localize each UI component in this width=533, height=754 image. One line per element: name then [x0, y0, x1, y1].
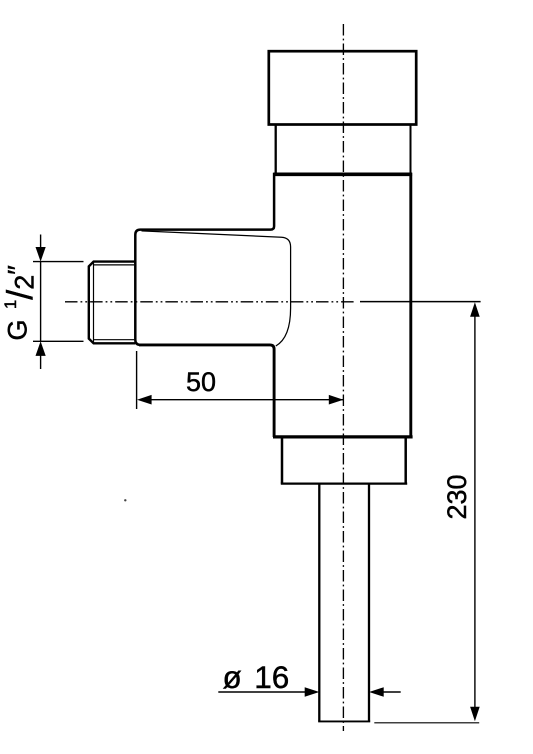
outlet pipe right edge	[368, 484, 370, 722]
bottom flange left edge	[281, 438, 284, 483]
dimension 230 bottom arrowhead	[470, 707, 480, 722]
svg-text:ø16: ø16	[223, 659, 290, 695]
button neck right edge	[410, 125, 412, 173]
valve body bottom edge	[273, 435, 413, 438]
bottom flange right edge	[404, 438, 407, 483]
scan speck	[124, 499, 126, 501]
valve body left edge upper, fillet into inlet boss top edge	[135, 173, 274, 345]
thread nipple outer profile with chamfers	[89, 262, 135, 344]
thread chamfer boundary line	[93, 263, 95, 343]
dimension 50 extension line	[136, 351, 138, 409]
dimension 50 line	[149, 399, 343, 401]
bottom flange bottom edge	[281, 482, 407, 484]
dimension o16 left-pointing arrowhead	[369, 687, 384, 697]
dimension G 1/2 upper arrowhead	[36, 247, 46, 262]
dimension G 1/2 line between extension lines	[40, 262, 42, 342]
svg-text:G 1/2″: G 1/2″	[0, 265, 40, 341]
vertical centerline	[342, 24, 344, 731]
inlet boss taper silhouette line	[142, 231, 291, 346]
svg-text:230: 230	[442, 474, 472, 519]
dimension o16 right line	[383, 691, 401, 693]
dimension G 1/2 lower arrowhead	[36, 341, 46, 356]
dimension 230 top arrowhead	[470, 302, 480, 317]
dimension o16 right-pointing arrowhead	[305, 687, 320, 697]
dimension 50 left arrowhead	[137, 395, 152, 405]
outlet pipe left edge	[318, 484, 320, 722]
valve body right edge	[409, 173, 412, 437]
dimension G 1/2 bottom extension line	[33, 340, 84, 342]
dimension o16 left line	[218, 691, 306, 693]
horizontal centerline (inlet axis)	[65, 301, 356, 303]
outlet pipe bottom edge	[318, 720, 370, 722]
push button cap	[269, 51, 416, 124]
valve body top edge	[274, 173, 413, 177]
dimension 230 top extension line	[360, 301, 481, 303]
thread root line top	[94, 264, 135, 266]
dimension G 1/2 upper arrow shaft	[40, 235, 42, 250]
inlet boss bottom edge, fillet into valve body left edge lower	[139, 345, 274, 437]
dimension G 1/2 lower arrow shaft	[40, 354, 42, 369]
svg-text:50: 50	[186, 367, 216, 397]
button neck left edge	[275, 125, 277, 173]
dimension 230 bottom extension line	[374, 722, 479, 724]
dimension 230 line	[474, 315, 476, 708]
thread root line bottom	[94, 339, 135, 341]
dimension 50 right arrowhead	[329, 395, 344, 405]
dimension G 1/2 top extension line	[33, 261, 84, 263]
